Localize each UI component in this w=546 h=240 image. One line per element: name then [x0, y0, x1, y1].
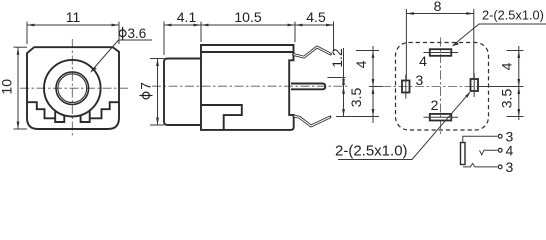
- svg-text:4.1: 4.1: [177, 9, 197, 25]
- left chain mid tick: [369, 86, 382, 88]
- barrel side view: [164, 59, 201, 126]
- svg-text:4: 4: [419, 53, 427, 69]
- sleeve bar: [461, 143, 466, 165]
- left chain dim line: [372, 46, 374, 123]
- hole circle phi3.6: [58, 74, 87, 103]
- svg-text:10.5: 10.5: [234, 9, 261, 25]
- svg-text:3.6: 3.6: [128, 26, 147, 41]
- right chain ticks: [507, 50, 524, 52]
- pin 2 rect: [430, 114, 452, 121]
- centerline horizontal bottom view: [382, 86, 498, 88]
- dim 10 line: [17, 47, 19, 129]
- pin 4 tick: [424, 52, 459, 54]
- dim line top side view: [164, 24, 334, 26]
- middle pin (tip contact) side view: [291, 84, 325, 90]
- right chain dim line: [518, 46, 520, 120]
- svg-text:11: 11: [66, 9, 81, 25]
- svg-text:2-(2.5x1.0): 2-(2.5x1.0): [335, 143, 408, 160]
- right chain arrows: [517, 51, 520, 59]
- side chain arrows: [342, 78, 345, 86]
- centerline horizontal top view: [20, 87, 130, 89]
- dim 11 line: [27, 24, 119, 26]
- leader top label: [453, 24, 546, 46]
- wire row1 (sleeve to terminal 3): [463, 136, 498, 142]
- dashed body outline bottom view: [396, 43, 489, 131]
- body side view: [201, 45, 294, 130]
- leader bottom label: [338, 92, 470, 159]
- side chain tick 1.2 top: [328, 77, 346, 79]
- internal step right top view: [90, 102, 119, 118]
- phi3.6 leader: [91, 40, 119, 72]
- dim phi7 ticks: [150, 58, 164, 60]
- terminal circle row1: [498, 134, 502, 138]
- terminal circle row3: [498, 165, 502, 169]
- dim 8 line: [406, 13, 473, 15]
- bottom pin bent side view: [294, 116, 330, 126]
- svg-text:4: 4: [353, 60, 369, 68]
- pin 4 rect: [430, 49, 452, 56]
- dim phi7 line: [157, 59, 159, 126]
- outer circle (barrel): [44, 60, 101, 117]
- svg-text:1.2: 1.2: [329, 48, 345, 68]
- side chain dim line: [343, 48, 345, 117]
- axis centerline side view: [152, 85, 348, 87]
- dim 10 arrows: [17, 47, 20, 55]
- dim 8 extension lines: [405, 9, 407, 80]
- body lid line side view: [201, 51, 294, 53]
- dim 10 extension ticks: [14, 46, 28, 48]
- internal step left top view: [27, 102, 55, 118]
- svg-text:4: 4: [499, 62, 515, 70]
- svg-text:4.5: 4.5: [306, 9, 326, 25]
- left chain top tick: [356, 50, 379, 52]
- centerline vertical top view: [71, 39, 73, 137]
- left chain arrows: [372, 51, 375, 59]
- pin 2 tick: [424, 116, 459, 118]
- pin right rect: [471, 79, 479, 91]
- wire row3 with bump (terminal 3): [463, 163, 497, 167]
- top pin bent side view: [294, 47, 331, 57]
- svg-text:7: 7: [139, 82, 154, 90]
- tab right below barrel circle: [81, 111, 90, 122]
- svg-text:8: 8: [434, 0, 442, 14]
- svg-text:3.5: 3.5: [499, 89, 515, 109]
- arrows top dims: [164, 24, 172, 27]
- tab left below barrel circle: [55, 111, 64, 122]
- pin 3 vertical tick: [405, 75, 407, 99]
- svg-text:2-(2.5x1.0): 2-(2.5x1.0): [482, 8, 544, 23]
- pin 3 rect (left): [402, 81, 410, 93]
- svg-text:4: 4: [506, 142, 514, 158]
- dim 11 arrows: [27, 24, 35, 27]
- internal notch side view: [201, 105, 242, 130]
- shared bottom tick y=116.5: [336, 116, 379, 118]
- svg-text:10: 10: [0, 79, 15, 95]
- body outline top view: [27, 47, 119, 129]
- terminal circle row2: [498, 148, 502, 152]
- dim 4.1 / 10.5 / 4.5 extension lines: [163, 22, 165, 56]
- pin right vertical tick: [473, 73, 475, 97]
- phi7 label: [139, 82, 154, 99]
- svg-text:3: 3: [416, 72, 424, 88]
- phi3.6 label: [119, 26, 146, 41]
- svg-text:2: 2: [431, 97, 439, 113]
- wire row2 with switch mark (terminal 4): [480, 150, 498, 155]
- pin right horizontal line to dim: [478, 86, 521, 88]
- dim 11 extension lines: [26, 22, 28, 45]
- svg-text:3.5: 3.5: [348, 88, 364, 108]
- svg-text:3: 3: [506, 159, 514, 174]
- centerline vertical bottom view: [440, 38, 442, 135]
- ring outer circle: [56, 72, 89, 105]
